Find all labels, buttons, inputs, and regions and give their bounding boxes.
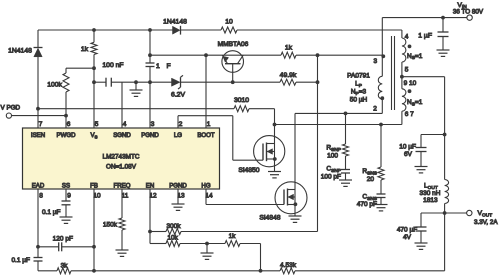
svg-text:PGND: PGND (169, 182, 187, 189)
svg-text:1k: 1k (229, 233, 237, 240)
svg-text:EN: EN (146, 182, 154, 189)
svg-text:49.9k: 49.9k (280, 72, 297, 79)
svg-text:FREQ: FREQ (114, 182, 131, 189)
svg-text:SGND: SGND (113, 132, 131, 139)
svg-text:300k: 300k (166, 223, 181, 230)
svg-text:330 nH: 330 nH (420, 190, 441, 197)
svg-text:4V: 4V (403, 234, 412, 241)
svg-text:20: 20 (367, 176, 375, 183)
svg-text:4.53k: 4.53k (280, 262, 297, 269)
svg-text:Si4850: Si4850 (238, 167, 259, 174)
svg-text:4: 4 (405, 34, 409, 41)
svg-text:13: 13 (177, 192, 185, 199)
svg-text:9 10: 9 10 (404, 80, 417, 87)
svg-text:100k: 100k (47, 82, 62, 89)
svg-text:LG: LG (174, 132, 182, 139)
svg-text:2: 2 (373, 106, 377, 113)
svg-text:470 pF: 470 pF (357, 201, 377, 208)
svg-text:150k: 150k (103, 222, 118, 229)
svg-text:PGND: PGND (141, 132, 159, 139)
svg-text:8: 8 (39, 192, 43, 199)
svg-text:10: 10 (225, 19, 233, 26)
svg-text:1k: 1k (81, 46, 89, 53)
svg-text:3: 3 (373, 58, 377, 65)
svg-text:470 µF: 470 µF (397, 227, 417, 234)
svg-text:2: 2 (179, 121, 183, 128)
svg-text:BOOT: BOOT (197, 132, 215, 139)
svg-text:Si4848: Si4848 (259, 215, 280, 222)
svg-text:SS: SS (62, 182, 70, 189)
svg-text:MMBTA06: MMBTA06 (218, 41, 249, 48)
svg-text:3010: 3010 (234, 97, 249, 104)
svg-text:HG: HG (201, 182, 210, 189)
svg-text:ISEN: ISEN (31, 132, 45, 139)
svg-text:FB: FB (90, 182, 98, 189)
svg-text:12: 12 (149, 192, 157, 199)
svg-text:3: 3 (151, 121, 155, 128)
svg-text:5: 5 (95, 121, 99, 128)
svg-text:36 TO 80V: 36 TO 80V (453, 8, 484, 15)
svg-text:PA0791: PA0791 (347, 73, 370, 80)
svg-text:100 pF: 100 pF (321, 174, 341, 181)
svg-text:6V: 6V (404, 151, 413, 158)
svg-text:14: 14 (205, 192, 213, 199)
svg-text:PWGD: PWGD (57, 132, 77, 139)
svg-text:0.1 µF: 0.1 µF (11, 257, 30, 264)
svg-text:100: 100 (327, 153, 338, 160)
svg-text:1k: 1k (285, 45, 293, 52)
svg-text:3k: 3k (61, 262, 69, 269)
svg-text:11: 11 (122, 192, 129, 199)
svg-text:1N4148: 1N4148 (8, 48, 32, 55)
svg-text:6 7: 6 7 (405, 111, 414, 118)
svg-text:10k: 10k (167, 234, 178, 241)
svg-text:1: 1 (207, 121, 211, 128)
svg-text:100 nF: 100 nF (102, 62, 123, 69)
svg-text:F: F (167, 63, 171, 70)
svg-text:V PGD: V PGD (1, 104, 21, 111)
svg-text:10 µF: 10 µF (399, 144, 416, 151)
svg-text:6: 6 (67, 121, 71, 128)
svg-text:120 pF: 120 pF (53, 236, 73, 243)
svg-text:1: 1 (156, 63, 160, 70)
svg-text:1N4148: 1N4148 (163, 19, 187, 26)
svg-text:10: 10 (93, 192, 101, 199)
svg-text:50 µH: 50 µH (350, 97, 368, 104)
svg-text:3.3V, 2A: 3.3V, 2A (474, 219, 498, 226)
svg-text:0.1 µF: 0.1 µF (42, 209, 61, 216)
svg-text:5: 5 (405, 67, 409, 74)
svg-text:1813: 1813 (423, 197, 438, 204)
svg-text:LM2743MTC: LM2743MTC (103, 154, 140, 161)
svg-text:7: 7 (39, 121, 43, 128)
svg-text:EAD: EAD (32, 182, 45, 189)
svg-text:1 µF: 1 µF (418, 33, 432, 40)
svg-text:9: 9 (67, 192, 71, 199)
svg-text:4: 4 (123, 121, 127, 128)
svg-text:ON=1.08V: ON=1.08V (106, 164, 137, 171)
svg-text:6.2V: 6.2V (171, 92, 185, 99)
